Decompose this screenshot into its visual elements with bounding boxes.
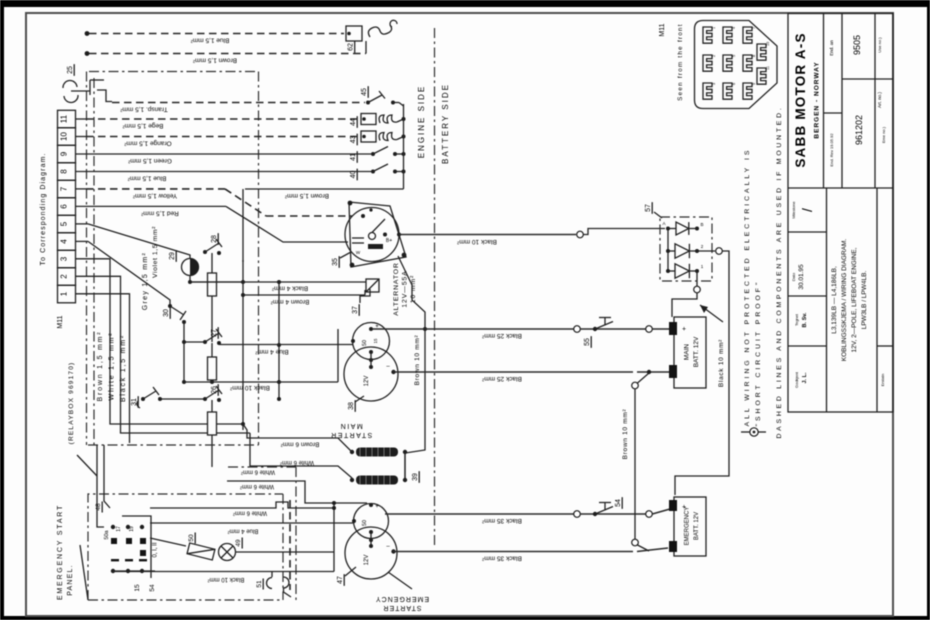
- title block texts: [791, 32, 886, 388]
- svg-text:54: 54: [615, 499, 622, 507]
- svg-text:15: 15: [134, 584, 141, 592]
- wire bege to 44: [76, 114, 406, 130]
- svg-text:Tegnet: Tegnet: [794, 313, 799, 326]
- svg-text:25: 25: [67, 66, 74, 74]
- svg-text:End. Rev 19.05.92: End. Rev 19.05.92: [829, 133, 834, 167]
- resistor 28 body: [208, 273, 217, 296]
- svg-text:M11: M11: [659, 23, 666, 36]
- svg-text:9: 9: [752, 83, 756, 85]
- svg-text:Milestone: Milestone: [791, 201, 796, 219]
- svg-text:Black 4 mm²: Black 4 mm²: [271, 285, 308, 292]
- svg-text:Godkjent: Godkjent: [794, 371, 799, 388]
- node wires around 29/28: [188, 276, 245, 285]
- svg-text:30.01.95: 30.01.95: [798, 264, 805, 290]
- svg-text:961202: 961202: [854, 115, 864, 145]
- terminal strip 1-11: [40, 110, 76, 302]
- cable black 35 bottom: [394, 548, 669, 562]
- svg-text:28: 28: [211, 235, 218, 243]
- emergency battery: [669, 497, 706, 556]
- svg-text:Seen from the front: Seen from the front: [677, 23, 684, 101]
- svg-text:EMERGENCY: EMERGENCY: [685, 507, 691, 546]
- alternator B+ wire to diodes: [399, 229, 665, 246]
- connector 25: [63, 64, 112, 102]
- engine boundary dash-dot bottom: [88, 445, 296, 600]
- svg-text:1: 1: [712, 27, 716, 29]
- svg-text:17: 17: [116, 526, 122, 532]
- svg-text:/: /: [799, 208, 815, 212]
- svg-text:White 6 mm²: White 6 mm²: [233, 510, 267, 516]
- svg-text:B+: B+: [386, 238, 392, 244]
- svg-text:+: +: [375, 504, 379, 510]
- svg-text:Erstatn: Erstatn: [880, 374, 885, 387]
- svg-text:MAIN: MAIN: [339, 422, 363, 429]
- svg-text:ALL WIRING NOT PROTECTED ELECT: ALL WIRING NOT PROTECTED ELECTRICALLY IS: [744, 148, 751, 427]
- svg-text:Black 25 mm²: Black 25 mm²: [481, 375, 522, 382]
- svg-text:B: B: [700, 222, 703, 227]
- cable black 35 top: [385, 511, 646, 524]
- svg-text:J. L.: J. L.: [802, 372, 808, 383]
- wire black 10 to starter: [184, 329, 338, 391]
- svg-text:A: A: [662, 221, 665, 226]
- black wire from terminal 1: [76, 294, 130, 443]
- svg-text:5: 5: [60, 221, 69, 226]
- svg-text:7: 7: [60, 186, 69, 191]
- scan edge black bars: [0, 0, 930, 7]
- svg-text:ALTERNATOR: ALTERNATOR: [393, 262, 400, 316]
- glow plugs 39: [350, 448, 419, 485]
- svg-text:EMERGENCY START: EMERGENCY START: [57, 504, 64, 600]
- svg-text:Black 10 mm²: Black 10 mm²: [718, 339, 725, 387]
- svg-text:White 6 mm²: White 6 mm²: [240, 483, 274, 489]
- switch 30: [163, 304, 186, 342]
- svg-text:8: 8: [60, 169, 69, 174]
- svg-text:Brown 4 mm²: Brown 4 mm²: [270, 298, 309, 305]
- connector M11 seen from front: [659, 21, 777, 109]
- fuel solenoid 62: [346, 20, 397, 53]
- cable black 25 bottom: [394, 370, 671, 382]
- panel wire white 6: [150, 502, 334, 516]
- svg-text:"SHORT CIRCUIT PROOF": "SHORT CIRCUIT PROOF": [755, 280, 762, 427]
- svg-text:30: 30: [163, 309, 170, 317]
- svg-text:LPW3LB / LPW4LB.: LPW3LB / LPW4LB.: [861, 271, 868, 330]
- svg-text:10: 10: [766, 42, 770, 46]
- svg-text:50: 50: [362, 340, 368, 346]
- fuse 50 and lamp 49: [150, 532, 334, 560]
- diode block 57: [645, 202, 712, 281]
- svg-text:+: +: [682, 326, 686, 333]
- glow feed wires: [227, 424, 352, 503]
- svg-text:Brown 6 mm²: Brown 6 mm²: [280, 441, 319, 448]
- diode to emergency battery wire: [675, 248, 729, 495]
- switch 26: [203, 384, 222, 402]
- svg-text:47: 47: [337, 576, 344, 584]
- svg-text:BATT. 12V: BATT. 12V: [693, 336, 700, 367]
- svg-text:3: 3: [712, 83, 716, 85]
- key switch matrix: [95, 501, 159, 591]
- emergency start panel box: [57, 494, 290, 600]
- svg-text:11: 11: [766, 66, 770, 70]
- svg-text:39: 39: [412, 473, 419, 481]
- grey wire from terminal 4: [76, 241, 171, 310]
- svg-text:ENGINE SIDE: ENGINE SIDE: [417, 85, 426, 159]
- svg-text:Green 1,5 mm²: Green 1,5 mm²: [127, 157, 172, 164]
- battery switch 55: [584, 318, 670, 348]
- svg-text:Black 35 mm²: Black 35 mm²: [481, 555, 522, 562]
- title block: [788, 14, 893, 413]
- svg-text:38: 38: [348, 402, 355, 410]
- svg-text:Art. no.): Art. no.): [877, 92, 882, 109]
- svg-text:EMERGENCY: EMERGENCY: [375, 595, 429, 602]
- svg-text:White 1,5 mm²: White 1,5 mm²: [109, 332, 116, 401]
- wire brown 4: [243, 290, 365, 305]
- svg-text:48: 48: [95, 503, 102, 511]
- wire green to switch 41: [76, 147, 406, 165]
- svg-text:50: 50: [362, 520, 368, 526]
- svg-text:54: 54: [149, 584, 156, 592]
- M11 corridor dash-dot lines: [86, 72, 88, 446]
- svg-text:Brown 10 mm²: Brown 10 mm²: [414, 335, 421, 386]
- engine side / battery side boundary: [434, 28, 436, 545]
- svg-text:KOBLINGSSKJEMA / WIRING DIAGRA: KOBLINGSSKJEMA / WIRING DIAGRAM.: [841, 239, 848, 362]
- svg-text:Blue 4 mm²: Blue 4 mm²: [255, 348, 289, 355]
- diode to main battery wire: [672, 271, 723, 322]
- svg-text:1: 1: [60, 291, 69, 296]
- svg-text:3: 3: [60, 256, 69, 261]
- svg-text:12V: 12V: [364, 555, 370, 566]
- svg-text:Use no.): Use no.): [877, 37, 882, 53]
- svg-text:9505: 9505: [852, 35, 862, 55]
- svg-text:12V: 12V: [364, 376, 370, 387]
- svg-text:Brown 10 mm²: Brown 10 mm²: [622, 409, 629, 460]
- svg-text:5: 5: [732, 55, 736, 57]
- svg-text:37: 37: [352, 306, 359, 314]
- svg-text:15: 15: [373, 338, 378, 344]
- svg-text:MAIN: MAIN: [684, 344, 691, 361]
- svg-text:49: 49: [235, 539, 242, 547]
- svg-text:10: 10: [60, 132, 69, 141]
- right bus for 40-45: [403, 104, 405, 189]
- wire blue 4 to starter 50: [219, 345, 353, 356]
- svg-text:50: 50: [188, 534, 195, 542]
- svg-text:Black 10 mm²: Black 10 mm²: [208, 576, 245, 582]
- svg-text:Black 10 mm²: Black 10 mm²: [229, 384, 270, 391]
- svg-text:57: 57: [645, 204, 652, 212]
- svg-text:4: 4: [60, 239, 69, 244]
- svg-text:41: 41: [350, 153, 357, 161]
- svg-text:6: 6: [732, 83, 736, 85]
- wire black 4 to connector 37: [190, 280, 370, 292]
- svg-text:Eme no.): Eme no.): [881, 126, 886, 143]
- svg-text:6: 6: [60, 204, 69, 209]
- svg-text:Bege 1,5 mm²: Bege 1,5 mm²: [122, 122, 164, 129]
- alternator 35: [332, 201, 406, 268]
- svg-text:Red 1,5 mm²: Red 1,5 mm²: [140, 210, 178, 217]
- svg-text:45: 45: [361, 88, 368, 96]
- svg-text:Violet 1,5 mm²: Violet 1,5 mm²: [152, 226, 159, 278]
- wire blue 1,5 to 62: [85, 31, 344, 43]
- svg-text:End. an: End. an: [829, 40, 834, 56]
- svg-text:L3,139LB — L4,186LB,: L3,139LB — L4,186LB,: [831, 266, 838, 334]
- svg-text:M11: M11: [57, 315, 64, 328]
- wire red 1,5 from terminal 6: [76, 206, 349, 242]
- svg-text:0, I, II: 0, I, II: [153, 542, 159, 557]
- svg-text:BATT. 12V: BATT. 12V: [694, 512, 700, 540]
- svg-text:Yellow 1,5 mm²: Yellow 1,5 mm²: [132, 192, 177, 199]
- connector 37: [352, 279, 379, 316]
- svg-text:BERGEN - NORWAY: BERGEN - NORWAY: [814, 61, 821, 138]
- svg-text:40: 40: [350, 171, 357, 179]
- main battery: [669, 317, 706, 388]
- switch 28: [203, 233, 222, 255]
- panel feed wires from relaybox: [97, 445, 110, 527]
- svg-text:7: 7: [752, 27, 756, 29]
- svg-text:SABB MOTOR A-S: SABB MOTOR A-S: [793, 32, 808, 167]
- svg-text:2: 2: [712, 55, 716, 57]
- svg-text:35: 35: [332, 258, 339, 266]
- brown 1,5 return wire: [243, 189, 404, 262]
- wire orange to 43: [76, 131, 406, 147]
- emergency starter 47: [332, 501, 412, 589]
- svg-text:Black 25 mm²: Black 25 mm²: [481, 332, 522, 339]
- cluster buses: [241, 260, 281, 430]
- svg-text:Blue 4 mm²: Blue 4 mm²: [228, 528, 259, 534]
- resistor 27 body: [208, 357, 217, 380]
- svg-text:Blue 1,5 mm²: Blue 1,5 mm²: [127, 175, 166, 182]
- svg-text:4: 4: [732, 27, 736, 29]
- svg-text:STARTER: STARTER: [382, 604, 421, 611]
- svg-text:Blue 1,5 mm²: Blue 1,5 mm²: [190, 37, 229, 44]
- battery switch 54: [593, 497, 670, 517]
- cable black 25 top: [372, 326, 646, 339]
- svg-text:Dato: Dato: [791, 272, 796, 281]
- svg-text:(RELAYBOX 969170): (RELAYBOX 969170): [68, 362, 75, 445]
- svg-text:62: 62: [348, 43, 355, 51]
- svg-text:Black 1,5 mm²: Black 1,5 mm²: [120, 334, 127, 402]
- svg-text:Black 10 mm²: Black 10 mm²: [456, 238, 497, 245]
- svg-text:43: 43: [350, 136, 357, 144]
- svg-text:11: 11: [60, 114, 69, 123]
- svg-text:White 6 mm²: White 6 mm²: [241, 469, 275, 475]
- svg-text:BATTERY SIDE: BATTERY SIDE: [441, 83, 450, 164]
- brown wire from terminal 3: [76, 259, 244, 424]
- svg-text:B. Sv.: B. Sv.: [802, 312, 808, 327]
- charge lamp 29: [169, 250, 199, 275]
- panel wire black 10 via connector 51: [113, 572, 334, 598]
- svg-text:55: 55: [584, 338, 591, 346]
- brown 10 link between batteries: [622, 373, 649, 551]
- svg-text:To Corresponding Diagram.: To Corresponding Diagram.: [40, 152, 47, 265]
- wire transp 1,5 / switch 45: [112, 86, 404, 112]
- main starter 38: [344, 323, 398, 412]
- wire brown 1,5 to 62: [85, 51, 366, 63]
- wires at 342/380: [182, 340, 214, 384]
- svg-text:DASHED LINES AND COMPONENTS AR: DASHED LINES AND COMPONENTS ARE USED IF …: [776, 105, 783, 438]
- svg-text:Brown 1,5 mm²: Brown 1,5 mm²: [192, 57, 237, 64]
- wire blue to switch 40: [76, 164, 406, 182]
- svg-text:Brown 1,5 mm²: Brown 1,5 mm²: [97, 331, 104, 402]
- svg-text:9: 9: [60, 151, 69, 156]
- svg-text:Brown 1,5 mm²: Brown 1,5 mm²: [284, 192, 329, 199]
- svg-text:2: 2: [60, 274, 69, 279]
- svg-text:Grey 1,5 mm²: Grey 1,5 mm²: [142, 252, 149, 310]
- svg-text:51: 51: [256, 580, 263, 588]
- panel wire blue 4: [150, 523, 353, 534]
- wire yellow 1,5 from terminal 7: [76, 189, 353, 216]
- svg-text:Orange 1,5 mm²: Orange 1,5 mm²: [124, 140, 172, 147]
- svg-text:10 mm²: 10 mm²: [410, 275, 417, 303]
- harness dash-dot boundary: [89, 71, 259, 73]
- svg-text:8: 8: [752, 55, 756, 57]
- relaybox leader line: [77, 455, 97, 476]
- alternator to starter riser: [398, 256, 427, 480]
- notes: all wiring short circuit proof: [744, 105, 783, 438]
- svg-text:50a: 50a: [104, 529, 110, 539]
- violet wire from terminal 5: [76, 224, 191, 278]
- svg-text:STARTER: STARTER: [330, 431, 373, 438]
- svg-text:12V, 2—POLE, LIFEBOAT ENGIN: 12V, 2—POLE, LIFEBOAT ENGINE,: [851, 247, 858, 352]
- svg-text:Black 35 mm²: Black 35 mm²: [481, 517, 522, 524]
- ground symbol: [741, 428, 766, 436]
- svg-text:44: 44: [350, 118, 357, 126]
- svg-text:Transp. 1,5 mm²: Transp. 1,5 mm²: [119, 106, 167, 113]
- svg-text:White 6 mm²: White 6 mm²: [280, 459, 314, 465]
- switch 27: [203, 327, 222, 345]
- switch 31: [131, 387, 205, 408]
- white wire from terminal 2: [76, 276, 251, 433]
- svg-text:PANEL.: PANEL.: [67, 564, 74, 596]
- resistor 26 body: [208, 412, 217, 435]
- svg-text:29: 29: [169, 252, 176, 260]
